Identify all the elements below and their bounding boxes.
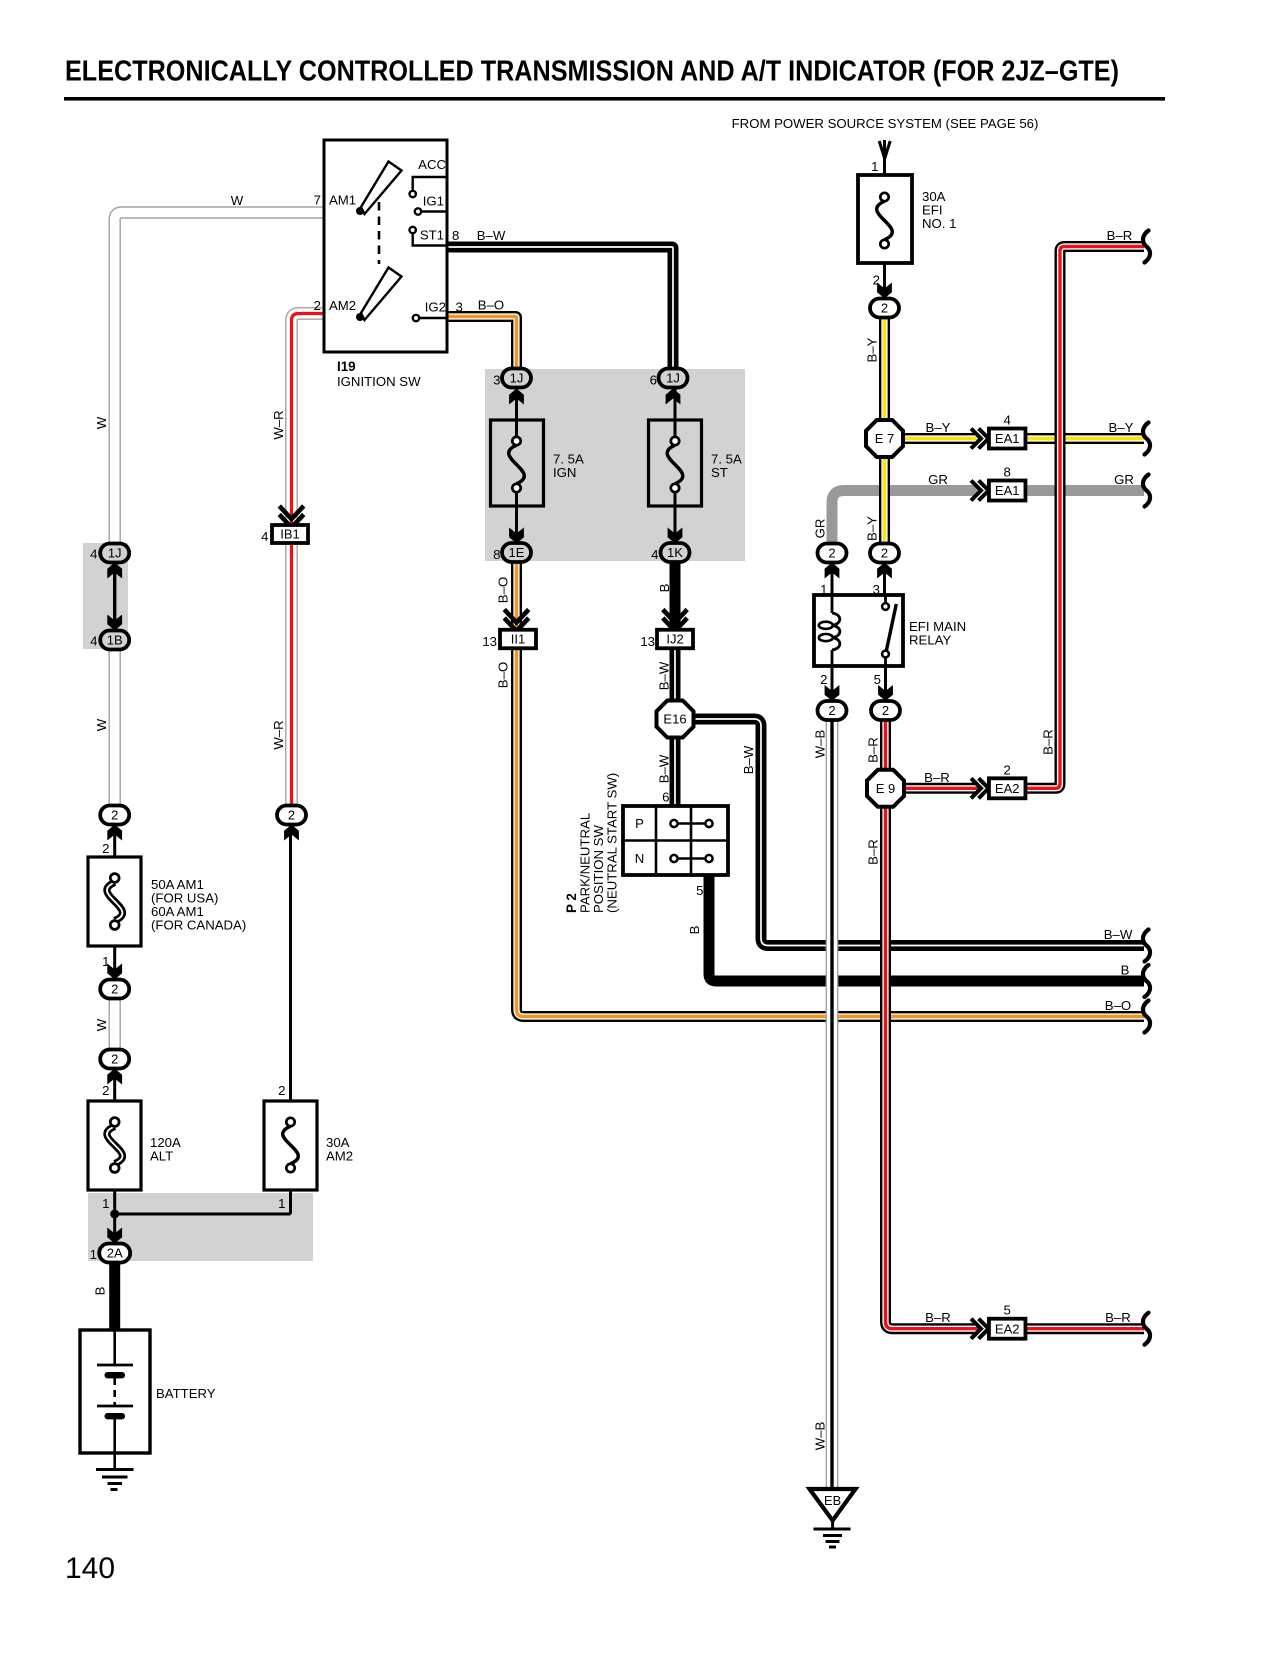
- wire stub 7.5A ST fuse to connector 1K: [674, 488, 677, 543]
- arrow into connector 2 at 50A AM1 top: [107, 825, 122, 841]
- splice E7: [866, 420, 903, 457]
- svg-text:6: 6: [662, 790, 669, 805]
- svg-text:B–W: B–W: [657, 661, 672, 690]
- wire stub 50A AM1 fuse pin 1 to connector 2: [113, 925, 116, 979]
- svg-text:E 7: E 7: [875, 431, 895, 446]
- svg-text:1: 1: [278, 1196, 285, 1211]
- fuse 7.5A IGN: [491, 420, 544, 506]
- continuation B-O to other page: [1143, 1001, 1150, 1033]
- svg-text:EA1: EA1: [995, 431, 1020, 446]
- svg-text:B–W: B–W: [477, 228, 506, 243]
- chevron arrows to EA1 pin 8: [971, 481, 989, 501]
- svg-text:1J: 1J: [510, 371, 524, 386]
- continuation B-Y to other page: [1143, 423, 1150, 455]
- label 30A EFI NO.1: [922, 189, 956, 231]
- svg-text:B–O: B–O: [478, 298, 504, 313]
- svg-text:B–R: B–R: [925, 1310, 951, 1325]
- P2 component name labels: [564, 773, 620, 913]
- connector 1J pin 6: [659, 369, 688, 388]
- wire W from connector 1B down to junction 2: [108, 649, 120, 808]
- chevron arrows to II1: [504, 610, 528, 632]
- connector 2 above 50A AM1: [100, 806, 129, 825]
- arrow into connector 2A: [107, 1228, 122, 1244]
- label 30A AM2: [326, 1135, 353, 1164]
- svg-text:B–R: B–R: [866, 839, 881, 865]
- wire stub connector 2 to 50A AM1 fuse: [113, 824, 116, 878]
- component name I19 IGNITION SW: [337, 359, 421, 389]
- wire B from connector 2A to battery: [109, 1262, 120, 1332]
- wire B-R from E9 to chevron arrows: [904, 783, 978, 794]
- park/neutral position switch P2 box: [623, 806, 728, 875]
- wire B-O from connector II1 down and right to page edge: [517, 648, 1145, 1017]
- svg-text:(NEUTRAL START SW): (NEUTRAL START SW): [605, 773, 620, 913]
- svg-text:N: N: [635, 851, 645, 866]
- label 50A/60A AM1: [151, 877, 246, 933]
- svg-text:8: 8: [1004, 465, 1011, 480]
- continuation B to other page: [1143, 965, 1150, 997]
- svg-text:2: 2: [828, 703, 835, 718]
- svg-text:ACC: ACC: [418, 157, 446, 172]
- svg-text:W: W: [94, 1018, 109, 1031]
- connector II1 pin 13: [500, 630, 536, 649]
- svg-text:2: 2: [102, 841, 109, 856]
- svg-text:3: 3: [456, 300, 463, 315]
- connector EA1 pin 8: [989, 481, 1025, 501]
- svg-text:IGNITION SW: IGNITION SW: [337, 374, 421, 389]
- arrow into connector 2 below relay pin 5: [878, 685, 893, 701]
- wire W between junction connectors: [108, 997, 120, 1051]
- connector IJ2 pin 13: [657, 630, 693, 649]
- connector 2 below relay pin 2: [818, 701, 847, 720]
- label 7.5A ST: [711, 452, 742, 481]
- svg-text:140: 140: [65, 1552, 115, 1585]
- svg-text:AM2: AM2: [326, 1149, 353, 1164]
- connector 1J pin 4: [100, 544, 129, 563]
- svg-text:1E: 1E: [509, 545, 525, 560]
- svg-text:8: 8: [452, 228, 459, 243]
- svg-text:2: 2: [881, 546, 888, 561]
- connector IB1 pin 4: [272, 525, 308, 543]
- svg-text:RELAY: RELAY: [909, 633, 951, 648]
- svg-text:I19: I19: [337, 359, 356, 374]
- arrow into connector 2 below 50A AM1: [107, 964, 122, 980]
- svg-text:8: 8: [493, 547, 500, 562]
- svg-text:ST: ST: [711, 465, 728, 480]
- continuation B-R to other page top: [1143, 231, 1150, 263]
- svg-text:ALT: ALT: [150, 1149, 173, 1164]
- wire B-R from connector EA2 pin 5 to page edge: [1026, 1323, 1145, 1334]
- wire stub connector 1J to 7.5A ST fuse: [674, 388, 677, 441]
- wire B-Y from E7 down to relay connector 2: [879, 456, 890, 546]
- svg-text:1K: 1K: [667, 545, 683, 560]
- svg-text:B–R: B–R: [1041, 729, 1056, 755]
- continuation B-R to other page bottom: [1143, 1313, 1150, 1345]
- wire stub relay pin 5: [884, 666, 887, 701]
- connector EA2 pin 5: [989, 1319, 1025, 1339]
- connector 1K pin 4: [661, 543, 690, 562]
- chevron arrows to EA2 pin 2: [971, 778, 989, 798]
- wire B-W from E16 right, down, right to page edge: [694, 719, 1144, 946]
- wire stub relay pin 3: [883, 562, 886, 597]
- connector 2 below 30A EFI fuse: [870, 299, 899, 318]
- arrow into connector 2 col2: [284, 825, 299, 841]
- svg-text:1J: 1J: [666, 371, 680, 386]
- power source arrow: [879, 141, 890, 159]
- svg-text:2: 2: [828, 546, 835, 561]
- connector 2 above 30A AM2: [277, 806, 306, 825]
- svg-text:B: B: [93, 1286, 108, 1295]
- svg-text:B–W: B–W: [741, 745, 756, 774]
- wire B-Y from connector EA1 pin 4 to page edge: [1026, 433, 1145, 444]
- arrow into 1J pin6 bottom: [666, 389, 681, 405]
- svg-text:W–R: W–R: [271, 410, 286, 439]
- svg-text:B–Y: B–Y: [865, 337, 880, 362]
- wire stub connector 1J to 7.5A IGN fuse: [515, 388, 518, 441]
- svg-text:2: 2: [882, 703, 889, 718]
- ignition switch IG1 contact: [415, 208, 447, 214]
- svg-text:B–O: B–O: [496, 662, 511, 688]
- svg-text:2: 2: [102, 1083, 109, 1098]
- svg-text:AM2: AM2: [329, 298, 356, 313]
- arrow into 1E top: [509, 528, 524, 544]
- svg-text:W–R: W–R: [271, 720, 286, 749]
- connector EA1 pin 4: [989, 429, 1025, 449]
- svg-text:2: 2: [111, 982, 118, 997]
- title rule: [64, 97, 1165, 101]
- svg-text:W–B: W–B: [813, 730, 828, 759]
- wire B-R from relay pin 5 connector down to E9: [880, 718, 891, 772]
- svg-text:2: 2: [314, 298, 321, 313]
- wire B-Y from 30A EFI fuse to E7: [879, 317, 890, 421]
- svg-text:B–Y: B–Y: [926, 420, 951, 435]
- svg-text:B–Y: B–Y: [1109, 420, 1134, 435]
- svg-text:B–R: B–R: [1107, 228, 1133, 243]
- connector EA2 pin 2: [989, 778, 1025, 798]
- svg-text:5: 5: [874, 672, 881, 687]
- connector 1E pin 8: [502, 543, 531, 562]
- svg-text:EB: EB: [824, 1493, 841, 1508]
- svg-text:7: 7: [314, 193, 321, 208]
- svg-text:1: 1: [871, 159, 878, 174]
- shading behind 7.5A fuse block: [485, 369, 745, 561]
- svg-text:3: 3: [493, 373, 500, 388]
- svg-text:2: 2: [288, 808, 295, 823]
- svg-text:ELECTRONICALLY CONTROLLED TRAN: ELECTRONICALLY CONTROLLED TRANSMISSION A…: [65, 56, 1119, 88]
- svg-text:B–W: B–W: [1104, 927, 1133, 942]
- splice E16: [657, 701, 694, 738]
- wire B-W from connector IJ2 to E16: [670, 648, 681, 702]
- arrow into 1K top: [668, 528, 683, 544]
- wire stub 30A EFI fuse pin 2: [883, 244, 886, 298]
- wire 30A AM2 fuse pin 1 to junction: [289, 1168, 292, 1214]
- svg-text:W: W: [94, 416, 109, 429]
- svg-text:13: 13: [482, 634, 497, 649]
- svg-text:B: B: [657, 583, 672, 592]
- svg-text:B–R: B–R: [924, 770, 950, 785]
- wire B-Y from E7 to chevron arrows: [903, 433, 978, 444]
- svg-text:1: 1: [90, 1247, 97, 1262]
- wire stub 7.5A IGN fuse to connector 1E: [515, 488, 518, 543]
- svg-text:4: 4: [90, 634, 97, 649]
- wire between connectors 1J and 1B: [113, 562, 116, 631]
- ground EB symbol: [814, 1521, 851, 1548]
- chevron arrows to IJ2: [663, 610, 687, 632]
- battery ground symbol: [96, 1453, 134, 1490]
- ignition switch AM1 contact and lever: [356, 162, 402, 216]
- connector 2 above relay pin 3: [870, 544, 899, 563]
- svg-text:B–O: B–O: [1105, 998, 1131, 1013]
- svg-text:GR: GR: [813, 519, 828, 539]
- svg-text:IG2: IG2: [425, 300, 446, 315]
- svg-text:NO. 1: NO. 1: [922, 216, 956, 231]
- svg-text:EA2: EA2: [995, 1321, 1020, 1336]
- svg-text:B–Y: B–Y: [865, 516, 880, 541]
- svg-text:IJ2: IJ2: [666, 632, 683, 647]
- svg-text:1J: 1J: [108, 546, 122, 561]
- connector 1J pin 3: [502, 369, 531, 388]
- fuse 30A EFI NO.1: [858, 175, 912, 263]
- arrow into 1B top: [107, 615, 122, 631]
- svg-text:BATTERY: BATTERY: [156, 1386, 216, 1401]
- ignition switch terminal labels: [329, 157, 446, 315]
- svg-text:II1: II1: [511, 632, 525, 647]
- svg-text:2: 2: [278, 1083, 285, 1098]
- svg-text:B–R: B–R: [1105, 1310, 1131, 1325]
- chevron arrows to IB1: [279, 506, 303, 528]
- svg-text:B–R: B–R: [866, 737, 881, 763]
- svg-text:W–B: W–B: [813, 1422, 828, 1451]
- fuse 7.5A ST: [649, 420, 702, 506]
- wire connector 2 down to 30A AM2 fuse: [289, 824, 292, 1122]
- label 7.5A IGN: [553, 452, 584, 481]
- ignition switch link dashed line: [378, 202, 381, 264]
- arrow into connector 2 above relay pin 1: [825, 563, 840, 579]
- svg-text:(FOR CANADA): (FOR CANADA): [151, 918, 246, 933]
- wire stub from power source arrow to 30A EFI fuse: [883, 140, 886, 197]
- ignition switch AM2 contact and lever: [356, 268, 402, 322]
- ignition switch IG2 contact: [413, 315, 447, 321]
- continuation B-W to other page: [1143, 930, 1150, 962]
- svg-text:E 9: E 9: [876, 781, 896, 796]
- label EFI MAIN RELAY: [909, 619, 966, 648]
- junction dot: [110, 1210, 119, 1219]
- svg-text:2A: 2A: [107, 1246, 123, 1261]
- arrow into 1J pin3 bottom: [509, 389, 524, 405]
- svg-text:W: W: [231, 193, 244, 208]
- svg-text:B–O: B–O: [496, 577, 511, 603]
- arrow into connector 2 below 30A EFI fuse: [877, 283, 892, 299]
- svg-text:P: P: [635, 816, 644, 831]
- P2 contact row N: [635, 851, 713, 866]
- svg-text:1B: 1B: [107, 633, 123, 648]
- wire B-O from ignition switch IG2 pin 3 to connector 1J pin 3: [447, 317, 517, 370]
- wire B-W from ignition switch ST1 pin 8 to connector 1J pin 6: [447, 247, 673, 370]
- svg-text:GR: GR: [928, 472, 948, 487]
- wire GR from relay connector up and right to chevron arrows: [832, 491, 978, 547]
- shading behind 2A junction area: [88, 1193, 313, 1261]
- wire 120A ALT fuse pin 1 to junction: [113, 1168, 116, 1243]
- wire stub relay pin 1: [831, 562, 834, 597]
- svg-text:4: 4: [1004, 413, 1011, 428]
- continuation GR to other page: [1143, 475, 1150, 507]
- arrow into connector 2 below relay pin 2: [825, 685, 840, 701]
- wire W-R from connector IB1 down to junction 2: [285, 543, 298, 808]
- connector 2 above 120A ALT: [100, 1050, 129, 1069]
- svg-text:IB1: IB1: [280, 527, 300, 542]
- svg-text:B: B: [687, 925, 702, 934]
- svg-text:B–W: B–W: [657, 754, 672, 783]
- connector 2 below 50A AM1: [100, 980, 129, 999]
- P2 contact row P: [635, 816, 712, 831]
- wire stub connector 2 to 120A ALT fuse: [113, 1068, 116, 1122]
- ground EB triangle: [810, 1489, 856, 1521]
- svg-text:2: 2: [111, 808, 118, 823]
- svg-text:4: 4: [261, 529, 268, 544]
- svg-text:B: B: [1121, 963, 1130, 978]
- ignition switch I19 box: [324, 140, 447, 352]
- svg-text:4: 4: [90, 547, 97, 562]
- wire W from ignition switch AM1 pin 7 to connector 1J: [115, 213, 324, 545]
- wire B-W from E16 to park/neutral switch pin 6: [670, 736, 681, 806]
- svg-text:EA1: EA1: [995, 483, 1020, 498]
- svg-text:6: 6: [650, 373, 657, 388]
- wire junction horizontal: [115, 1213, 291, 1216]
- wire W-B from relay pin 2 down to ground EB: [826, 718, 839, 1487]
- svg-text:1: 1: [102, 1196, 109, 1211]
- svg-text:4: 4: [651, 547, 658, 562]
- svg-text:ST1: ST1: [420, 228, 444, 243]
- fuse 50A AM1: [88, 857, 141, 946]
- splice E9: [867, 770, 904, 807]
- wire B-R from E9 down and right to chevron arrows: [886, 806, 979, 1329]
- svg-text:2: 2: [881, 301, 888, 316]
- connector 2 above relay pin 1: [818, 544, 847, 563]
- svg-text:13: 13: [640, 634, 655, 649]
- arrow into connector 2 above relay pin 3: [877, 563, 892, 579]
- battery box: [80, 1330, 150, 1453]
- svg-text:IGN: IGN: [553, 465, 576, 480]
- wire B-R from connector EA2 pin 2, up and right to page edge: [1026, 247, 1145, 789]
- svg-text:EA2: EA2: [995, 781, 1020, 796]
- ignition switch ACC contact: [410, 177, 448, 197]
- svg-text:5: 5: [1004, 1303, 1011, 1318]
- wire B from park/neutral switch pin 5 down and right to page edge: [709, 875, 1144, 981]
- svg-text:5: 5: [696, 883, 703, 898]
- wire GR from connector EA1 pin 8 to page edge: [1026, 485, 1145, 496]
- svg-text:2: 2: [1004, 762, 1011, 777]
- connector 2A: [99, 1244, 130, 1263]
- wire W-R from ignition switch AM2 pin 2 to connector IB1: [292, 314, 325, 526]
- chevron arrows to EA1 pin 4: [971, 429, 989, 449]
- svg-text:2: 2: [820, 672, 827, 687]
- arrow into 1J bottom: [107, 563, 122, 579]
- wire B from connector 1K to connector IJ2: [670, 562, 681, 630]
- relay EFI MAIN RELAY box: [814, 595, 903, 666]
- ignition switch ST1 contact: [410, 227, 448, 246]
- wire B-O from connector 1E to connector II1: [511, 562, 522, 630]
- shading behind 1J/1B junction connectors: [83, 543, 128, 649]
- chevron arrows to EA2 pin 5: [971, 1319, 989, 1339]
- svg-text:2: 2: [111, 1052, 118, 1067]
- label 120A ALT: [150, 1135, 181, 1164]
- wire stub relay pin 2: [831, 666, 834, 701]
- svg-text:W: W: [94, 718, 109, 731]
- arrow into connector 2 above 120A ALT: [107, 1069, 122, 1085]
- svg-text:IG1: IG1: [423, 194, 444, 209]
- svg-text:E16: E16: [663, 712, 686, 727]
- connector 1B pin 4: [100, 631, 129, 650]
- svg-text:AM1: AM1: [329, 193, 356, 208]
- ignition switch pin numbers: [314, 193, 463, 315]
- svg-text:FROM POWER SOURCE SYSTEM (SEE: FROM POWER SOURCE SYSTEM (SEE PAGE 56): [732, 116, 1039, 131]
- svg-text:GR: GR: [1114, 472, 1134, 487]
- fuse 30A AM2: [264, 1101, 317, 1190]
- fuse 120A ALT: [88, 1101, 141, 1190]
- connector 2 below relay pin 5: [871, 701, 900, 720]
